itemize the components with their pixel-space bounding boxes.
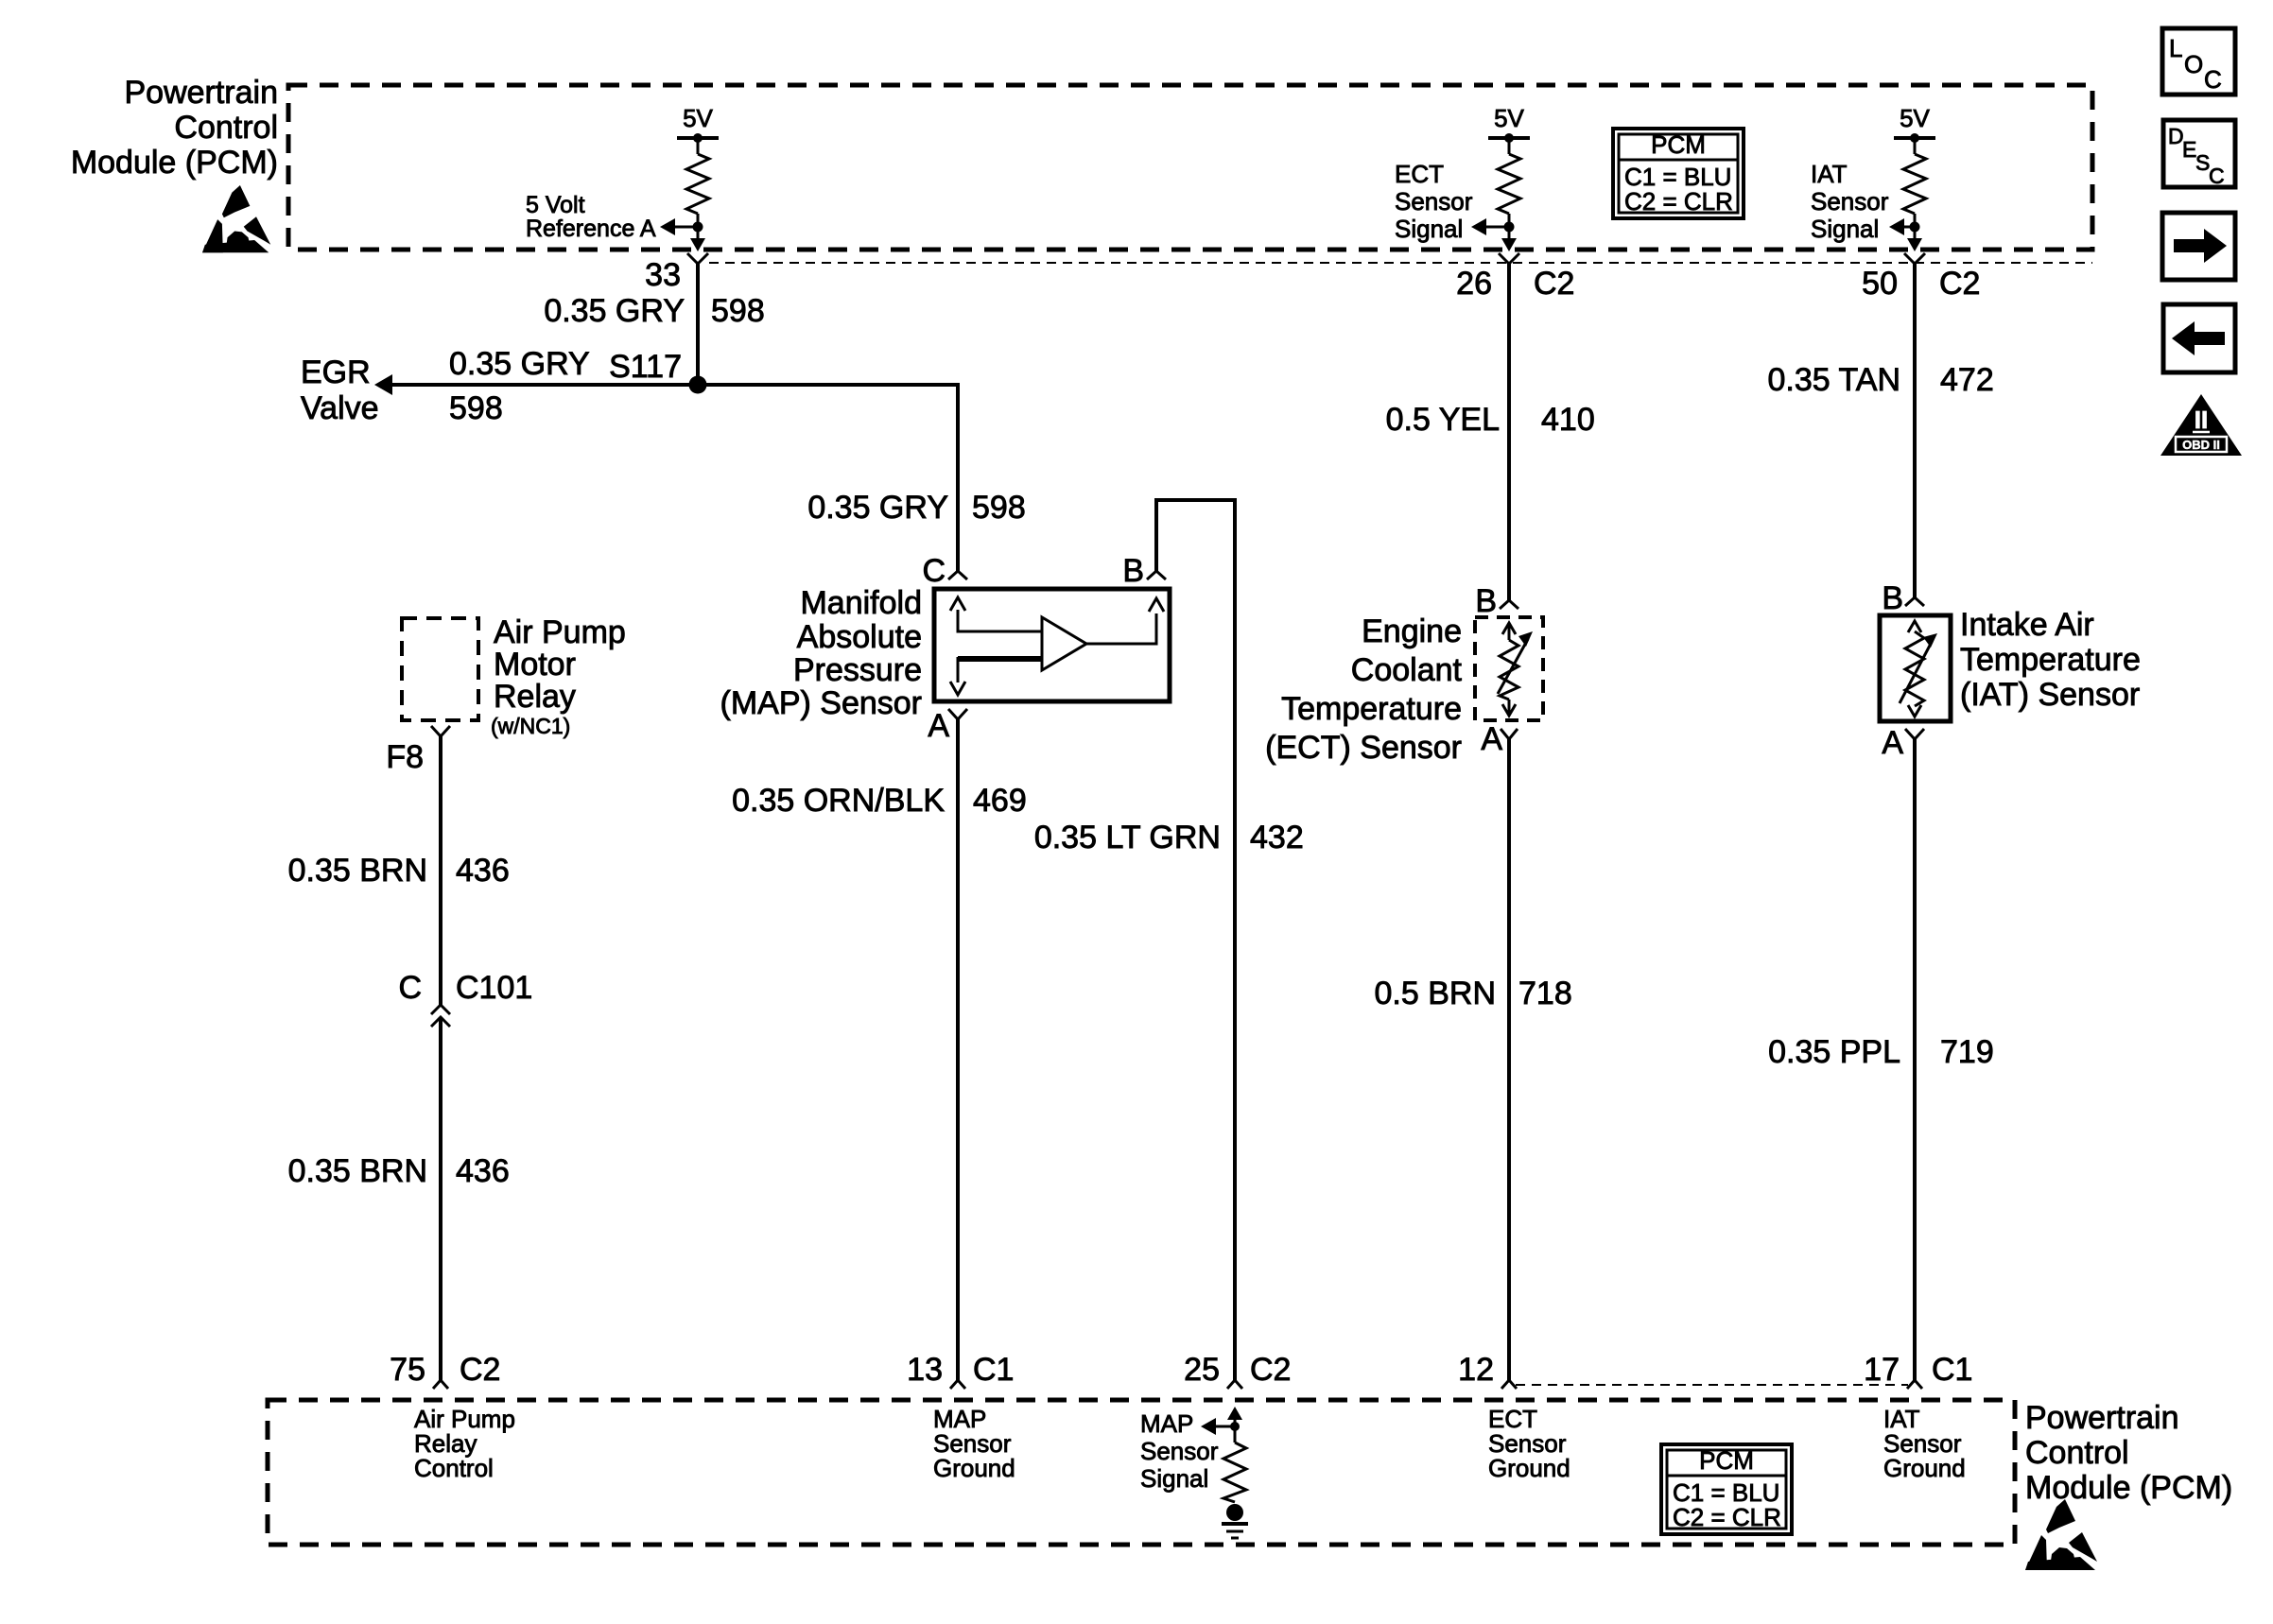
svg-text:13: 13	[907, 1352, 943, 1388]
pin 25 connector	[1227, 1380, 1242, 1389]
ESD symbol bottom-right	[2025, 1499, 2097, 1570]
svg-text:(w/NC1): (w/NC1)	[491, 714, 570, 738]
op-amp U1A triangle	[1042, 617, 1086, 670]
svg-text:Sensor: Sensor	[1811, 187, 1889, 216]
IAT sensor pin A	[1905, 729, 1924, 739]
svg-text:PCM: PCM	[1699, 1446, 1754, 1475]
svg-text:0.35 ORN/BLK: 0.35 ORN/BLK	[732, 783, 945, 819]
label Air Pump Relay Control	[414, 1405, 515, 1482]
svg-text:C2: C2	[1534, 266, 1574, 302]
PCM top dashed box	[288, 85, 2092, 250]
svg-text:26: 26	[1456, 266, 1492, 302]
icon DESC box	[2163, 120, 2235, 188]
svg-text:5V: 5V	[1900, 104, 1930, 132]
MAP signal left arrow	[1201, 1418, 1235, 1435]
label 5 Volt Reference A	[526, 192, 656, 242]
svg-text:C2: C2	[1939, 266, 1980, 302]
wire IAT A to pin 17	[1913, 739, 1917, 1380]
svg-text:0.35 BRN: 0.35 BRN	[288, 853, 427, 889]
svg-text:A: A	[928, 708, 949, 744]
MAP internal arrow to C	[950, 597, 1042, 631]
svg-text:598: 598	[449, 390, 503, 426]
svg-text:0.35 GRY: 0.35 GRY	[449, 346, 590, 382]
svg-text:B: B	[1882, 580, 1903, 616]
PCM bottom dashed box	[268, 1400, 2015, 1545]
svg-text:0.35 BRN: 0.35 BRN	[288, 1153, 427, 1189]
svg-text:Control: Control	[174, 110, 278, 146]
ECT thermistor element	[1498, 623, 1533, 716]
label IAT Sensor Signal	[1811, 160, 1889, 243]
svg-text:598: 598	[972, 490, 1026, 526]
wire to EGR valve with arrow	[388, 383, 698, 387]
MAP sensor pin A	[948, 709, 967, 719]
svg-text:17: 17	[1864, 1352, 1900, 1388]
svg-text:0.35 GRY: 0.35 GRY	[544, 293, 685, 329]
svg-text:(MAP) Sensor: (MAP) Sensor	[720, 685, 923, 721]
svg-text:(IAT) Sensor: (IAT) Sensor	[1960, 677, 2140, 713]
svg-text:Control: Control	[2025, 1435, 2129, 1471]
pin 33 connector	[687, 253, 708, 264]
pin 50 connector	[1904, 253, 1925, 264]
MAP sensor pin C	[948, 571, 967, 579]
label MAP Sensor Ground	[933, 1405, 1015, 1482]
svg-text:Relay: Relay	[494, 679, 576, 715]
label Intake Air Temperature (IAT) Sensor	[1960, 607, 2141, 713]
ECT sensor pin B	[1500, 600, 1518, 609]
svg-text:Signal: Signal	[1395, 215, 1463, 243]
svg-text:II: II	[2195, 406, 2208, 434]
svg-text:718: 718	[1518, 976, 1572, 1011]
svg-text:C: C	[2209, 164, 2225, 188]
pin 12 connector	[1501, 1380, 1517, 1389]
wire MAP B jumper to signal line	[1156, 500, 1235, 1380]
wire pin 26 to ECT sensor	[1507, 264, 1511, 600]
C1 connector thin dashed line (bottom)	[1516, 1384, 1908, 1386]
svg-text:Ground: Ground	[1488, 1454, 1570, 1482]
svg-text:C2: C2	[1250, 1352, 1291, 1388]
pin 26 connector	[1499, 253, 1519, 264]
resistor R3 5V pull-up (IAT)	[1889, 104, 1935, 251]
IAT thermistor element	[1900, 621, 1937, 717]
svg-text:Coolant: Coolant	[1351, 652, 1463, 688]
svg-text:MAP: MAP	[1140, 1409, 1193, 1438]
svg-text:Absolute: Absolute	[797, 619, 922, 655]
svg-text:12: 12	[1458, 1352, 1494, 1388]
node S117 junction	[689, 376, 707, 394]
svg-text:Temperature: Temperature	[1960, 642, 2141, 678]
svg-text:A: A	[1882, 725, 1903, 761]
svg-text:(ECT) Sensor: (ECT) Sensor	[1265, 730, 1462, 766]
svg-text:C: C	[398, 970, 422, 1006]
svg-text:598: 598	[711, 293, 765, 329]
svg-text:719: 719	[1940, 1034, 1994, 1070]
svg-text:Temperature: Temperature	[1281, 691, 1462, 727]
svg-text:Module (PCM): Module (PCM)	[2025, 1470, 2232, 1506]
resistor R1 5V pull-up (5 Volt Reference A)	[660, 104, 719, 251]
wire MAP A to pin 13	[956, 719, 960, 1380]
MAP internal output arrow to B	[1086, 598, 1164, 644]
label EGR Valve	[301, 354, 379, 426]
MAP sensor pin B	[1147, 571, 1166, 579]
wire C101 to pin 75	[439, 1019, 442, 1380]
svg-text:Air Pump: Air Pump	[494, 614, 626, 650]
svg-text:Module (PCM): Module (PCM)	[71, 145, 278, 181]
svg-text:0.35 TAN: 0.35 TAN	[1768, 362, 1900, 398]
svg-text:25: 25	[1184, 1352, 1220, 1388]
svg-text:Powertrain: Powertrain	[2025, 1400, 2179, 1436]
pin 75 connector	[433, 1380, 448, 1389]
svg-text:C101: C101	[456, 970, 532, 1006]
PCM connector color table (bottom)	[1661, 1444, 1792, 1534]
svg-text:Control: Control	[414, 1454, 494, 1482]
svg-text:C: C	[922, 553, 946, 589]
MAP internal arrow to A	[950, 657, 1042, 695]
pin 13 connector	[950, 1380, 965, 1389]
svg-text:0.35 GRY: 0.35 GRY	[807, 490, 948, 526]
svg-text:432: 432	[1250, 820, 1304, 855]
pin 17 connector	[1907, 1380, 1922, 1389]
svg-text:C2 = CLR: C2 = CLR	[1673, 1503, 1781, 1531]
svg-text:ECT: ECT	[1395, 160, 1444, 188]
icon left arrow box	[2163, 304, 2235, 372]
svg-text:Intake Air: Intake Air	[1960, 607, 2094, 643]
svg-text:Powertrain: Powertrain	[124, 75, 278, 111]
resistor internal MAP signal	[1223, 1443, 1246, 1502]
svg-text:B: B	[1475, 583, 1497, 619]
svg-text:Motor: Motor	[494, 647, 576, 682]
svg-text:Pressure: Pressure	[793, 652, 922, 688]
svg-text:0.5 YEL: 0.5 YEL	[1386, 402, 1500, 438]
wire F8 to C101	[439, 736, 442, 1005]
svg-text:Ground: Ground	[1883, 1454, 1966, 1482]
svg-text:436: 436	[456, 853, 510, 889]
svg-text:75: 75	[390, 1352, 425, 1388]
IAT sensor pin B	[1905, 597, 1924, 606]
svg-text:C: C	[2204, 65, 2222, 94]
ESD symbol top-left	[202, 185, 270, 252]
svg-text:Reference A: Reference A	[526, 216, 656, 242]
connector C101 pin C	[431, 1005, 450, 1027]
label MAP Sensor Signal	[1140, 1409, 1219, 1493]
svg-text:C1: C1	[1932, 1352, 1972, 1388]
svg-text:0.35 PPL: 0.35 PPL	[1768, 1034, 1900, 1070]
label ECT Sensor Ground	[1488, 1405, 1570, 1482]
svg-text:C1: C1	[973, 1352, 1014, 1388]
svg-text:F8: F8	[386, 739, 424, 775]
svg-text:L: L	[2169, 34, 2182, 62]
label Engine Coolant Temperature (ECT) Sensor	[1265, 613, 1462, 766]
svg-text:B: B	[1122, 553, 1144, 589]
ECT sensor pin A	[1501, 729, 1518, 739]
svg-text:IAT: IAT	[1811, 160, 1848, 188]
wire pin33 to S117	[696, 264, 700, 385]
svg-text:Sensor: Sensor	[1140, 1437, 1219, 1465]
svg-text:O: O	[2184, 50, 2203, 78]
MAP sensor U1 box	[934, 589, 1170, 701]
icon LOC box	[2162, 28, 2235, 95]
ECT sensor RT1 dashed box	[1475, 617, 1543, 720]
wire ECT A to pin 12	[1507, 739, 1511, 1380]
relay K1 Air Pump Motor Relay dashed box	[402, 618, 478, 720]
IAT sensor RT2 box	[1880, 615, 1951, 721]
svg-text:OBD II: OBD II	[2182, 438, 2220, 452]
label IAT Sensor Ground	[1883, 1405, 1966, 1482]
svg-text:C2 = CLR: C2 = CLR	[1624, 187, 1733, 216]
svg-text:Ground: Ground	[933, 1454, 1015, 1482]
svg-text:Signal: Signal	[1811, 215, 1879, 243]
svg-text:5V: 5V	[1494, 104, 1524, 132]
svg-text:Signal: Signal	[1140, 1464, 1208, 1493]
label Powertrain Control Module (PCM) top-left	[71, 75, 278, 181]
MAP signal junction dot	[1230, 1422, 1240, 1431]
svg-text:EGR: EGR	[301, 354, 371, 390]
svg-text:Valve: Valve	[301, 390, 379, 426]
svg-text:33: 33	[645, 257, 681, 293]
svg-text:0.35 LT GRN: 0.35 LT GRN	[1034, 820, 1221, 855]
ground (MAP signal)	[1222, 1504, 1248, 1538]
svg-text:436: 436	[456, 1153, 510, 1189]
svg-text:Manifold: Manifold	[800, 585, 922, 621]
PCM connector color table (top)	[1613, 129, 1744, 218]
svg-text:PCM: PCM	[1651, 130, 1706, 159]
svg-text:C2: C2	[460, 1352, 500, 1388]
C2 connector thin dashed line (top)	[709, 262, 2092, 264]
svg-text:A: A	[1481, 721, 1502, 757]
label Powertrain Control Module (PCM) bottom-right	[2025, 1400, 2232, 1506]
relay pin F8	[431, 726, 450, 736]
svg-text:472: 472	[1940, 362, 1994, 398]
label Air Pump Motor Relay	[494, 614, 626, 715]
wire S117 to MAP sensor pin C	[698, 385, 958, 571]
MAP signal internal up arrow	[1227, 1407, 1242, 1443]
svg-text:410: 410	[1541, 402, 1595, 438]
label ECT Sensor Signal	[1395, 160, 1473, 243]
svg-text:Sensor: Sensor	[1395, 187, 1473, 216]
svg-text:5V: 5V	[683, 104, 713, 132]
wire pin 50 to IAT sensor	[1913, 264, 1917, 597]
icon right arrow box	[2162, 213, 2235, 280]
svg-text:5 Volt: 5 Volt	[526, 192, 585, 218]
svg-text:469: 469	[973, 783, 1027, 819]
svg-text:50: 50	[1862, 266, 1898, 302]
icon OBD II triangle	[2160, 394, 2242, 456]
svg-text:0.5 BRN: 0.5 BRN	[1375, 976, 1497, 1011]
svg-text:Engine: Engine	[1362, 613, 1462, 649]
svg-text:S117: S117	[609, 349, 682, 385]
resistor R2 5V pull-up (ECT)	[1471, 104, 1530, 251]
label Manifold Absolute Pressure (MAP) Sensor	[720, 585, 923, 721]
